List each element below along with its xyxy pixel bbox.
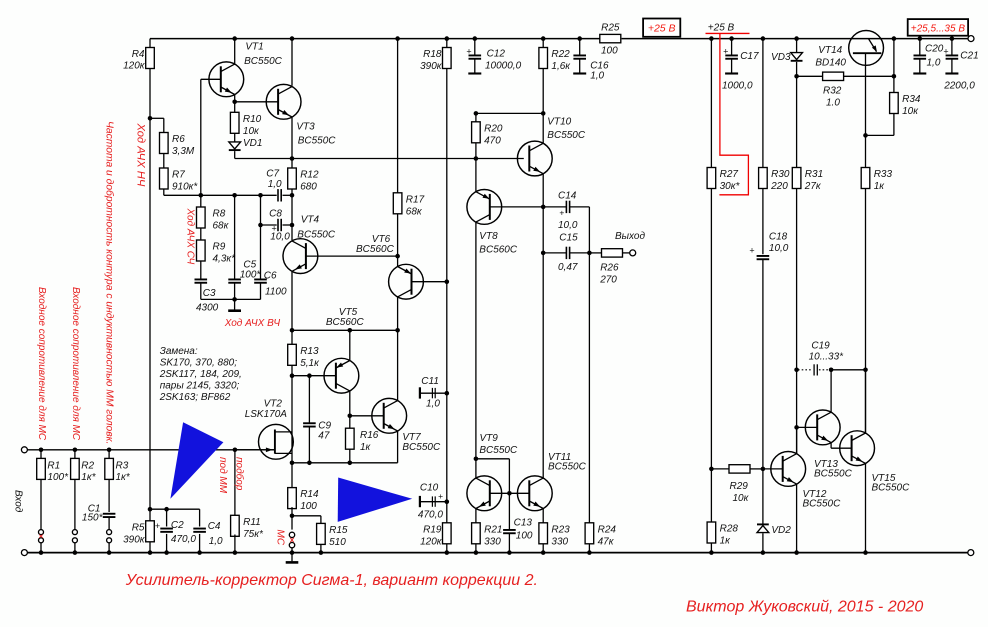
- svg-text:VD2: VD2: [771, 525, 791, 536]
- wire VT12 emitter down: [796, 484, 798, 553]
- wire VT8 base line: [490, 206, 543, 208]
- wire R28 bottom: [710, 543, 712, 553]
- junction VT4 base/VT6 emitter: [395, 254, 400, 259]
- svg-text:C8: C8: [269, 209, 282, 220]
- junction R2 top: [73, 448, 78, 453]
- svg-text:100: 100: [300, 501, 317, 512]
- junction VT6 base: [445, 279, 450, 284]
- wire VT10 collector up: [542, 113, 544, 143]
- svg-text:C15: C15: [559, 232, 578, 243]
- svg-text:+: +: [155, 521, 160, 531]
- svg-text:1,0: 1,0: [268, 179, 282, 190]
- label +25V box 2: [908, 19, 968, 36]
- transistor VT1: [209, 62, 244, 97]
- terminal output: [630, 250, 636, 256]
- junction C2 top: [164, 507, 169, 512]
- junction VT15 rail: [863, 550, 868, 555]
- svg-text:BC560C: BC560C: [356, 244, 395, 255]
- svg-text:150*: 150*: [82, 513, 104, 524]
- wire R11 column: [234, 450, 236, 516]
- svg-text:R9: R9: [213, 242, 226, 253]
- capacitor C4: [199, 509, 201, 526]
- terminal +25V supply input: [968, 36, 974, 42]
- junction R20 top: [474, 111, 479, 116]
- diode VD2: [757, 526, 769, 533]
- junction VT2 source/R14: [290, 461, 295, 466]
- svg-text:1000,0: 1000,0: [722, 81, 753, 92]
- wire C3/C5/C6 bottom line: [201, 298, 261, 300]
- svg-text:470: 470: [484, 135, 501, 146]
- svg-text:+: +: [438, 491, 443, 501]
- wire R8-R9: [200, 228, 202, 240]
- junction R18 rail: [445, 36, 450, 41]
- svg-text:510: 510: [329, 537, 346, 548]
- svg-text:R19: R19: [423, 524, 442, 535]
- wire R5 to rail: [149, 542, 151, 553]
- junction R13/VT5 base: [290, 373, 295, 378]
- wire VT5 base line: [292, 375, 336, 377]
- capacitor C13: [508, 493, 510, 530]
- wire C2/C4 top line: [150, 508, 200, 510]
- svg-text:Виктор Жуковский, 2015 - 2020: Виктор Жуковский, 2015 - 2020: [686, 599, 923, 616]
- wire VT10 emitter down: [542, 174, 544, 479]
- diode VD3: [791, 53, 803, 60]
- transistor VT11: [517, 476, 552, 511]
- svg-text:BC550C: BC550C: [402, 442, 441, 453]
- ground chassis mark at C5: [234, 299, 236, 309]
- svg-text:1100: 1100: [265, 287, 287, 298]
- resistor R14: [288, 488, 297, 509]
- junction VT5 emitter top: [348, 328, 353, 333]
- svg-text:VT3: VT3: [296, 122, 315, 133]
- svg-text:Ход АЧХ СЧ: Ход АЧХ СЧ: [184, 208, 195, 265]
- resistor R26: [602, 249, 623, 257]
- resistor R7: [160, 168, 169, 189]
- transistor VT14: [849, 31, 884, 66]
- svg-text:+: +: [559, 208, 564, 218]
- junction R28 rail: [709, 550, 714, 555]
- svg-text:Усилитель-корректор Сигма-1, в: Усилитель-корректор Сигма-1, вариант кор…: [125, 572, 538, 589]
- svg-text:BC550C: BC550C: [298, 136, 337, 147]
- resistor R27: [707, 168, 716, 189]
- capacitor C3: [195, 278, 208, 280]
- svg-text:R4: R4: [132, 49, 145, 60]
- svg-text:R20: R20: [484, 123, 503, 134]
- wire R30 down: [762, 189, 764, 255]
- wire collector jog: [476, 458, 510, 460]
- svg-text:R33: R33: [874, 169, 893, 180]
- junction VT8 base: [541, 205, 546, 210]
- svg-text:10...33*: 10...33*: [809, 352, 845, 363]
- junction C10 right: [445, 499, 450, 504]
- capacitor C6: [260, 195, 262, 279]
- svg-text:30к*: 30к*: [720, 181, 741, 192]
- resistor R20: [472, 122, 481, 143]
- capacitor C11: [419, 387, 421, 398]
- junction C15/R24: [587, 251, 592, 256]
- junction C11 right: [445, 391, 450, 396]
- wire +25V top rail right segment: [622, 38, 971, 40]
- wire C15 line: [543, 252, 566, 254]
- svg-text:C17: C17: [740, 51, 759, 62]
- transistor VT4: [283, 239, 318, 274]
- junction VT3 rail: [290, 36, 295, 41]
- svg-text:BC550C: BC550C: [548, 462, 587, 473]
- resistor R30: [759, 168, 768, 189]
- junction C6 col top: [258, 193, 263, 198]
- svg-text:R12: R12: [300, 170, 319, 181]
- svg-text:10000,0: 10000,0: [485, 61, 522, 72]
- transistor VT5: [324, 358, 359, 393]
- svg-text:5,1к: 5,1к: [300, 358, 320, 369]
- capacitor C19: [798, 369, 813, 371]
- wire VD2 bottom: [762, 533, 764, 552]
- svg-text:120к: 120к: [420, 536, 443, 547]
- resistor R16: [346, 428, 355, 449]
- svg-text:+: +: [466, 47, 471, 57]
- junction R22 rail: [541, 36, 546, 41]
- svg-text:C21: C21: [960, 51, 978, 62]
- wire R19 bottom: [446, 544, 448, 553]
- svg-text:4,3к*: 4,3к*: [213, 254, 237, 265]
- wire VT6 base line: [412, 281, 447, 283]
- wire C8 line y225: [261, 224, 277, 226]
- capacitor C10: [419, 496, 421, 507]
- svg-text:C3: C3: [203, 288, 216, 299]
- svg-text:R30: R30: [771, 169, 790, 180]
- wire R16 bottom: [349, 449, 351, 463]
- wire R13 bottom: [291, 365, 293, 375]
- svg-text:под ММ: под ММ: [217, 457, 228, 494]
- wire R4 column long: [149, 118, 151, 521]
- svg-text:R1: R1: [47, 461, 60, 472]
- svg-text:R7: R7: [172, 170, 185, 181]
- label +25V box 1: [643, 19, 680, 37]
- svg-text:BC560C: BC560C: [479, 245, 518, 256]
- svg-text:R23: R23: [551, 524, 570, 535]
- junction R4/R6: [148, 116, 153, 121]
- junction R11 rail: [233, 550, 238, 555]
- svg-text:R5: R5: [132, 522, 145, 533]
- resistor R25: [600, 34, 621, 42]
- resistor R12: [288, 168, 297, 189]
- svg-text:R2: R2: [81, 461, 94, 472]
- transistor VT8: [467, 190, 502, 225]
- transistor VT9: [467, 476, 502, 511]
- svg-text:C18: C18: [769, 231, 788, 242]
- junction VT9/VT11 base: [507, 491, 512, 496]
- svg-text:R21: R21: [484, 524, 502, 535]
- svg-text:100: 100: [601, 45, 618, 56]
- junction VD2 rail: [761, 550, 766, 555]
- wire VT7 collector up: [397, 330, 399, 401]
- junction VT6/VT7 collectors: [395, 328, 400, 333]
- svg-text:BC550C: BC550C: [297, 230, 336, 241]
- svg-text:1,0: 1,0: [927, 58, 941, 69]
- svg-text:Вход: Вход: [12, 490, 23, 513]
- svg-text:Частота и добротность контура: Частота и добротность контура с индуктив…: [104, 121, 116, 444]
- svg-text:1,0: 1,0: [590, 70, 604, 81]
- svg-text:подбор: подбор: [234, 457, 246, 491]
- junction VT3/R12 node: [290, 156, 295, 161]
- annotation arrow blue 1: [170, 422, 223, 499]
- junction C19 line right: [863, 368, 868, 373]
- svg-text:Ход АЧХ НЧ: Ход АЧХ НЧ: [135, 123, 147, 187]
- wire VT3 collector to rail: [291, 39, 293, 86]
- wire R2 column: [74, 450, 76, 530]
- svg-text:R28: R28: [720, 524, 739, 535]
- svg-text:0,47: 0,47: [558, 262, 578, 273]
- wire VD3 to R32: [796, 62, 798, 76]
- wire R9 to C3: [200, 261, 202, 279]
- capacitor C2: [166, 509, 168, 526]
- resistor R5: [146, 521, 155, 542]
- svg-text:BC550C: BC550C: [479, 445, 518, 456]
- wire y330 line: [292, 329, 398, 331]
- svg-text:C11: C11: [421, 376, 439, 387]
- wire R24 bottom: [588, 544, 590, 553]
- junction VT4 emitter line: [290, 328, 295, 333]
- wire VT11 base: [509, 492, 529, 494]
- wire R15 bottom: [320, 544, 322, 552]
- resistor R3: [105, 458, 114, 479]
- wire R7 to bias line: [163, 189, 165, 195]
- wire VT4 emitter down: [291, 271, 293, 330]
- junction C2 bottom rail: [164, 550, 169, 555]
- diode VD1: [229, 142, 241, 149]
- junction R32 right: [892, 74, 897, 79]
- svg-text:330: 330: [484, 536, 501, 547]
- svg-text:+: +: [749, 245, 754, 255]
- svg-text:BD140: BD140: [815, 58, 846, 69]
- resistor R23: [539, 523, 548, 544]
- svg-text:Входное сопротивление для МС: Входное сопротивление для МС: [70, 287, 81, 441]
- wire R31 down: [796, 189, 798, 454]
- wire VT4 base line: [306, 255, 398, 257]
- resistor R2: [71, 458, 80, 479]
- svg-text:2SK117, 184, 209,: 2SK117, 184, 209,: [159, 369, 242, 380]
- capacitor C12: [474, 39, 476, 56]
- wire R16 lead: [349, 416, 351, 428]
- svg-text:C13: C13: [514, 518, 533, 529]
- wire R34 bottom: [893, 114, 895, 136]
- svg-text:270: 270: [599, 275, 617, 286]
- svg-text:R32: R32: [823, 86, 842, 97]
- wire R20 lead top: [475, 113, 477, 121]
- resistor R34: [890, 93, 899, 114]
- wire R1 column: [40, 450, 42, 530]
- svg-text:R26: R26: [600, 263, 619, 274]
- wire R23 bottom: [542, 544, 544, 553]
- junction R34 rail: [892, 36, 897, 41]
- svg-text:BC550C: BC550C: [814, 469, 853, 480]
- svg-text:Ход АЧХ ВЧ: Ход АЧХ ВЧ: [224, 318, 281, 329]
- svg-text:1к*: 1к*: [81, 472, 96, 483]
- svg-text:C4: C4: [208, 521, 221, 532]
- wire bias line y195: [164, 194, 277, 196]
- jumper link below R14: [289, 532, 294, 537]
- resistor R29: [729, 465, 750, 473]
- svg-text:75к*: 75к*: [243, 529, 264, 540]
- wire R31 column: [796, 76, 798, 167]
- jumper link below R2: [72, 530, 77, 535]
- transistor VT7: [372, 398, 407, 433]
- wire R34 column: [893, 39, 895, 93]
- wire R26 line: [589, 252, 601, 254]
- svg-text:910к*: 910к*: [172, 182, 198, 193]
- wire C14 corner down: [588, 207, 590, 253]
- svg-text:R13: R13: [300, 346, 319, 357]
- svg-text:VT9: VT9: [480, 433, 499, 444]
- svg-text:1,0: 1,0: [426, 399, 440, 410]
- wire R18 column from rail: [446, 39, 448, 48]
- junction R24 rail: [587, 550, 592, 555]
- svg-text:1к: 1к: [360, 442, 372, 453]
- junction C12 rail: [473, 36, 478, 41]
- junction VT7 base node: [348, 414, 353, 419]
- wire C14 line: [543, 206, 566, 208]
- wire R29 line: [711, 468, 729, 470]
- svg-text:C14: C14: [558, 190, 577, 201]
- wire VT8 collector down: [475, 222, 477, 459]
- svg-text:VD3: VD3: [771, 52, 791, 63]
- svg-text:+: +: [943, 47, 948, 57]
- junction C17 rail: [729, 36, 734, 41]
- wire VT10 collector line y113: [476, 112, 543, 114]
- svg-text:R17: R17: [406, 194, 425, 205]
- junction C8 left: [258, 223, 263, 228]
- junction R14/R15 node: [290, 514, 295, 519]
- wire R17 column from rail: [397, 39, 399, 193]
- transistor VT3: [266, 84, 301, 119]
- resistor R6: [160, 133, 169, 154]
- svg-text:+25 В: +25 В: [708, 23, 735, 34]
- junction C9 bottom: [307, 461, 312, 466]
- svg-text:LSK170A: LSK170A: [245, 409, 288, 420]
- svg-text:VD1: VD1: [243, 138, 262, 149]
- svg-text:47: 47: [318, 431, 330, 442]
- junction C15 line left: [541, 251, 546, 256]
- junction R3 bottom rail: [107, 550, 112, 555]
- wire VT9 collector: [475, 459, 477, 479]
- svg-text:R34: R34: [902, 94, 921, 105]
- wire red +25V mod wire: [719, 34, 748, 195]
- svg-text:3,3М: 3,3М: [172, 146, 195, 157]
- svg-text:10к: 10к: [243, 126, 260, 137]
- svg-text:1,0: 1,0: [209, 536, 223, 547]
- svg-text:BC550C: BC550C: [872, 483, 911, 494]
- wire source line y462: [292, 462, 398, 464]
- capacitor C9: [308, 376, 310, 424]
- wire R22 lead: [542, 39, 544, 48]
- transistor VT13: [805, 410, 840, 445]
- junction C13 rail: [507, 550, 512, 555]
- wire VT3 base line: [235, 101, 279, 103]
- wire R12 bottom: [291, 189, 293, 195]
- junction R23 rail: [541, 550, 546, 555]
- svg-text:C12: C12: [487, 48, 506, 59]
- wire R3 column: [108, 450, 110, 512]
- capacitor C17: [731, 39, 733, 56]
- jumper link below C1: [107, 530, 112, 535]
- wire VT1 base: [201, 78, 221, 80]
- svg-text:390к: 390к: [420, 61, 443, 72]
- wire VT5 collector down: [349, 391, 351, 416]
- resistor R15: [317, 523, 326, 544]
- transistor VT2 JFET: [259, 424, 294, 459]
- junction R5 bottom rail: [148, 550, 153, 555]
- junction R29 left: [709, 467, 714, 472]
- svg-text:BC560C: BC560C: [326, 317, 365, 328]
- svg-text:R11: R11: [243, 517, 261, 528]
- junction C5 top: [232, 193, 237, 198]
- svg-text:BC550C: BC550C: [244, 56, 283, 67]
- svg-text:R3: R3: [116, 461, 129, 472]
- svg-text:10,0: 10,0: [769, 243, 789, 254]
- capacitor C16: [579, 39, 581, 56]
- junction VT13 collector top: [829, 368, 834, 373]
- svg-text:470,0: 470,0: [418, 510, 443, 521]
- wire VT7 emitter down: [397, 431, 399, 463]
- svg-text:10к: 10к: [902, 106, 919, 117]
- wire R4 column top: [149, 39, 151, 48]
- svg-text:100*: 100*: [47, 472, 69, 483]
- svg-text:1,6к: 1,6к: [551, 61, 571, 72]
- wire VT8 emitter up: [475, 159, 477, 192]
- resistor R24: [585, 523, 594, 544]
- resistor R18: [443, 48, 452, 69]
- wire R8 lead: [200, 195, 202, 207]
- svg-text:C20: C20: [925, 44, 944, 55]
- junction R27 rail: [709, 36, 714, 41]
- transistor VT10: [517, 141, 552, 176]
- capacitor C15: [565, 247, 567, 259]
- wire VT6 emitter: [397, 256, 399, 266]
- resistor R32: [823, 72, 844, 80]
- wire C19 to R33 column: [831, 369, 865, 371]
- junction R1 bottom rail: [39, 550, 44, 555]
- junction VT10 collector: [541, 111, 546, 116]
- svg-text:4300: 4300: [196, 303, 219, 314]
- wire VT5 emitter up: [349, 330, 351, 360]
- junction VD3 rail: [794, 36, 799, 41]
- wire VT7 base line: [350, 415, 384, 417]
- svg-text:R24: R24: [598, 524, 617, 535]
- wire R30 column: [762, 39, 764, 168]
- capacitor C8: [277, 219, 279, 231]
- wire VT11 emitter: [542, 508, 544, 523]
- svg-text:2200,0: 2200,0: [943, 81, 975, 92]
- resistor R17: [393, 193, 402, 214]
- svg-text:Замена:: Замена:: [160, 346, 198, 357]
- wire R24 column: [588, 253, 590, 523]
- junction VT13 base node: [794, 425, 799, 430]
- svg-text:BC550C: BC550C: [803, 499, 842, 510]
- resistor R22: [539, 48, 548, 69]
- transistor VT6: [389, 264, 424, 299]
- wire VT9 emitter: [475, 508, 477, 523]
- svg-text:68к: 68к: [213, 221, 230, 232]
- svg-text:R25: R25: [601, 22, 620, 33]
- svg-text:Входное сопротивление для МС: Входное сопротивление для МС: [36, 287, 47, 441]
- junction R15 rail: [319, 550, 324, 555]
- wire R18 long column: [446, 69, 448, 523]
- junction VT12 rail: [794, 550, 799, 555]
- svg-text:1к: 1к: [720, 536, 732, 547]
- jumper link below R1: [39, 530, 44, 535]
- wire VT13 collector up: [830, 370, 832, 413]
- wire VT6 collector down: [397, 297, 399, 331]
